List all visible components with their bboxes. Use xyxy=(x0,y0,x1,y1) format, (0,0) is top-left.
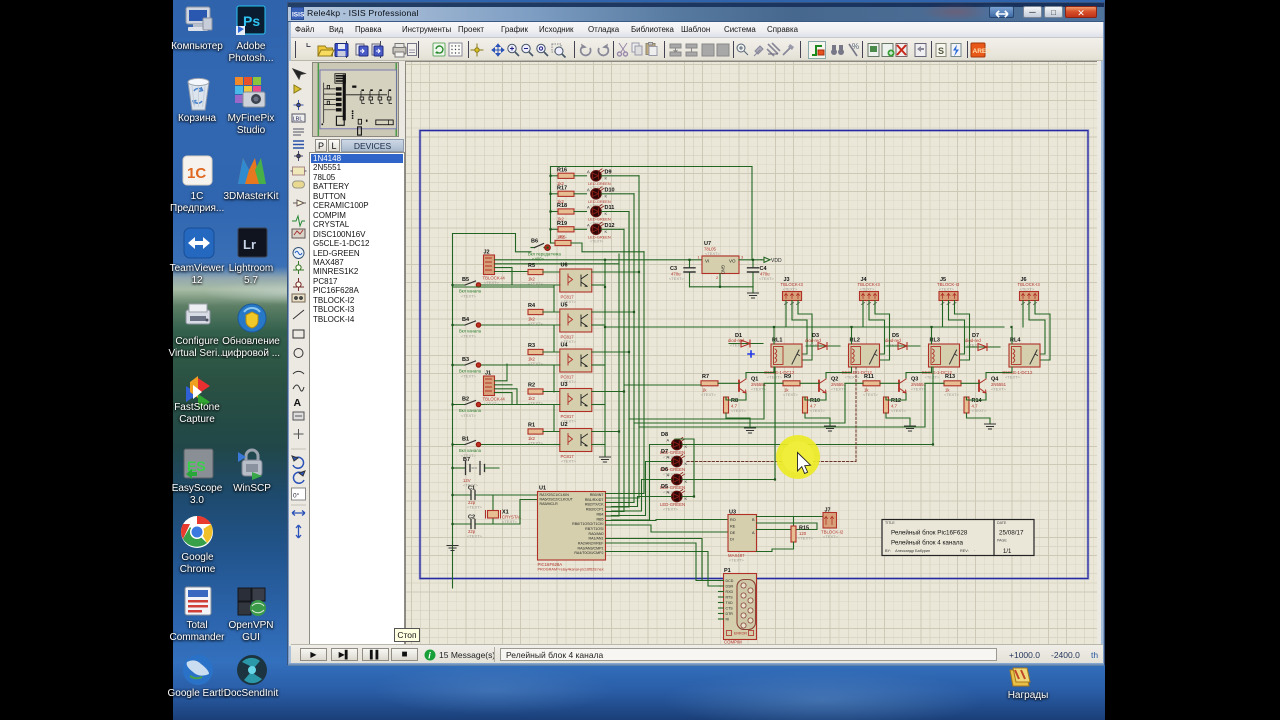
svg-text:RB6/T1OSO/T1CKI: RB6/T1OSO/T1CKI xyxy=(572,522,603,526)
LED D5 xyxy=(660,484,688,512)
save xyxy=(335,44,348,57)
svg-text:DSR: DSR xyxy=(726,585,734,589)
open xyxy=(318,46,334,56)
svg-text:U4: U4 xyxy=(561,343,569,349)
origin xyxy=(471,44,484,57)
svg-text:R9: R9 xyxy=(784,374,791,380)
svg-text:DI: DI xyxy=(730,538,734,542)
Награды icon xyxy=(1010,668,1030,686)
svg-text:R18: R18 xyxy=(557,203,567,209)
svg-text:PIC16F628A: PIC16F628A xyxy=(538,562,563,567)
switch B6 xyxy=(528,239,561,262)
connector J5 TBLOCK-I3 xyxy=(937,277,960,305)
import xyxy=(356,44,368,56)
sheet border xyxy=(420,131,1088,579)
cut xyxy=(618,43,628,56)
wire xyxy=(493,494,538,496)
wire xyxy=(612,497,672,507)
svg-text:PAGE: PAGE xyxy=(997,539,1007,543)
capacitor C3 xyxy=(669,260,695,287)
connector J2 TBLOCK-I4 xyxy=(483,250,506,286)
svg-text:<TEXT>: <TEXT> xyxy=(461,413,477,418)
1C icon xyxy=(183,156,212,185)
wire xyxy=(623,229,625,511)
block delete xyxy=(717,44,729,56)
svg-text:Ps: Ps xyxy=(243,13,260,29)
svg-text:RO: RO xyxy=(730,518,736,522)
microcontroller U1 PIC16F628A xyxy=(538,486,606,572)
svg-text:CTS: CTS xyxy=(726,607,734,611)
resistor R9 xyxy=(783,374,819,397)
svg-text:<TEXT>: <TEXT> xyxy=(461,374,477,379)
svg-text:RA3/AN3/CMP1: RA3/AN3/CMP1 xyxy=(578,546,604,550)
Компьютер icon xyxy=(186,7,212,31)
svg-text:RB0/INT: RB0/INT xyxy=(590,493,605,497)
svg-text:<TEXT>: <TEXT> xyxy=(461,294,477,299)
switch B5 xyxy=(453,277,555,299)
capacitor C4 xyxy=(748,260,775,287)
svg-text:VO: VO xyxy=(729,259,736,264)
connector J6 TBLOCK-I3 xyxy=(1018,277,1041,305)
wire xyxy=(551,166,753,168)
switch B1 xyxy=(453,437,555,459)
svg-text:Lr: Lr xyxy=(243,237,256,252)
svg-text:BY: Александр Бабурин: BY: Александр Бабурин xyxy=(885,549,930,553)
Chrome icon xyxy=(181,516,213,548)
wire xyxy=(495,268,513,285)
wire xyxy=(624,384,701,386)
sheet remove xyxy=(896,44,907,57)
wire xyxy=(453,234,532,252)
TeamViewer icon xyxy=(184,228,214,258)
svg-text:RE: RE xyxy=(730,525,736,529)
wire xyxy=(612,480,672,512)
wire xyxy=(606,506,630,508)
svg-text:<TEXT>: <TEXT> xyxy=(669,276,685,281)
svg-text:<TEXT>: <TEXT> xyxy=(939,287,955,292)
wire xyxy=(495,364,518,404)
svg-text:DCD: DCD xyxy=(726,579,734,583)
zoom out xyxy=(522,44,533,56)
wire xyxy=(592,404,605,406)
wire xyxy=(690,260,762,287)
svg-text:ERROR: ERROR xyxy=(734,632,747,636)
svg-text:Релейный блок Pic16F628: Релейный блок Pic16F628 xyxy=(891,529,968,537)
wire xyxy=(592,284,605,286)
connector J7 TBLOCK-I2 xyxy=(821,508,844,540)
crystal X1 xyxy=(486,495,523,524)
ARES xyxy=(971,43,991,57)
svg-text:<TEXT>: <TEXT> xyxy=(590,239,603,243)
transceiver U3 MAX487 xyxy=(728,510,757,563)
wire xyxy=(726,394,750,429)
wire xyxy=(633,194,635,503)
LED D11 xyxy=(574,205,614,226)
transistor Q4 2N5551 xyxy=(979,377,1007,394)
svg-text:1: 1 xyxy=(698,255,701,260)
pan xyxy=(492,44,504,56)
LED D10 xyxy=(574,187,615,208)
relay RL3 G5CLE-1-DC12 xyxy=(922,338,960,380)
zoom in xyxy=(508,44,519,56)
resistor R1 xyxy=(528,423,560,446)
block copy xyxy=(670,44,681,56)
node junction dots xyxy=(451,175,1012,525)
svg-text:A: A xyxy=(667,438,670,443)
wire xyxy=(601,193,634,195)
wire autorouter (active) xyxy=(809,42,826,59)
zoom full xyxy=(537,44,548,56)
resistor R13 xyxy=(944,374,979,397)
switch B3 xyxy=(453,357,555,379)
svg-text:A: A xyxy=(667,473,670,478)
svg-text:COMPIM: COMPIM xyxy=(724,640,742,645)
FastStone icon xyxy=(186,376,210,410)
EasyScope icon xyxy=(184,449,213,479)
resistor R14 xyxy=(964,397,987,413)
resistor R15 xyxy=(757,517,814,552)
voltage regulator U7 78L05 xyxy=(698,241,745,280)
hammer xyxy=(783,44,794,55)
svg-text:<TEXT>: <TEXT> xyxy=(528,321,544,326)
wire xyxy=(606,539,719,581)
svg-text:<TEXT>: <TEXT> xyxy=(863,392,879,397)
wire xyxy=(863,301,890,361)
svg-text:R7: R7 xyxy=(702,374,709,380)
wire xyxy=(554,285,560,312)
wire xyxy=(606,525,729,532)
svg-text:RB2/TX/CK: RB2/TX/CK xyxy=(585,503,604,507)
svg-text:<TEXT>: <TEXT> xyxy=(810,408,826,413)
zoom area xyxy=(552,44,566,58)
svg-text:25/08/17: 25/08/17 xyxy=(999,530,1024,537)
Total Commander icon xyxy=(185,587,211,615)
wire xyxy=(495,259,703,261)
wire xyxy=(606,497,640,499)
ground xyxy=(825,426,836,431)
svg-text:1С: 1С xyxy=(187,165,206,182)
svg-text:VI: VI xyxy=(705,259,709,264)
connector J1 TBLOCK-I4 xyxy=(483,371,506,407)
wire xyxy=(495,271,529,273)
mark xyxy=(408,44,417,56)
optocoupler U4 PC817 xyxy=(560,343,592,385)
transistor Q1 2N5551 xyxy=(739,377,767,394)
resistor R16 xyxy=(551,167,575,186)
wire xyxy=(554,325,560,352)
resistor R7 xyxy=(701,374,739,397)
svg-text:GND: GND xyxy=(721,265,726,274)
svg-text:<TEXT>: <TEXT> xyxy=(823,534,839,539)
wire xyxy=(606,502,635,504)
connector J4 TBLOCK-I3 xyxy=(858,277,881,305)
relay RL2 G5CLE-1-DC12 xyxy=(842,338,880,380)
svg-text:<TEXT>: <TEXT> xyxy=(467,505,483,510)
wire xyxy=(592,444,605,446)
svg-text:U5: U5 xyxy=(561,303,568,309)
svg-text:U2: U2 xyxy=(561,422,568,428)
desktop icons art xyxy=(173,0,1105,720)
resistor R11 xyxy=(863,374,899,397)
refresh xyxy=(433,43,445,56)
wire xyxy=(554,444,560,446)
svg-text:TITLE: TITLE xyxy=(885,521,895,525)
hatch xyxy=(767,43,780,56)
wire xyxy=(967,394,991,425)
wire xyxy=(629,383,783,419)
wire xyxy=(592,364,605,366)
wire (routing, dashed) xyxy=(687,367,856,462)
svg-text:RB7/T1OSI: RB7/T1OSI xyxy=(585,527,603,531)
transistor Q2 2N5551 xyxy=(819,377,847,394)
wire xyxy=(612,462,672,516)
svg-text:A: A xyxy=(667,455,670,460)
svg-text:ARES: ARES xyxy=(973,48,992,55)
diode D1 xyxy=(728,333,763,348)
resistor R3 xyxy=(528,343,560,366)
svg-text:2: 2 xyxy=(716,275,719,280)
wire xyxy=(606,520,729,521)
LED D6 xyxy=(660,467,688,495)
wire xyxy=(628,212,630,508)
svg-text:B3: B3 xyxy=(462,357,469,363)
svg-text:B4: B4 xyxy=(462,317,470,323)
svg-text:RB5: RB5 xyxy=(597,517,604,521)
svg-text:<TEXT>: <TEXT> xyxy=(467,534,483,539)
wire xyxy=(601,175,639,177)
svg-text:<TEXT>: <TEXT> xyxy=(461,334,477,339)
resistor R19 xyxy=(551,221,575,240)
capacitor C2 xyxy=(453,500,538,539)
diode D5 xyxy=(885,333,920,350)
wire xyxy=(592,351,629,353)
svg-text:<TEXT>: <TEXT> xyxy=(705,251,721,256)
svg-text:R2: R2 xyxy=(528,383,535,389)
svg-text:<TEXT>: <TEXT> xyxy=(845,375,861,380)
wire xyxy=(592,431,619,433)
wire xyxy=(746,327,774,378)
wire xyxy=(601,211,629,213)
connector P1 COMPIM xyxy=(719,568,757,645)
wire xyxy=(606,552,719,587)
resistor R12 xyxy=(884,397,907,413)
svg-text:<TEXT>: <TEXT> xyxy=(991,387,1007,392)
svg-text:RB4: RB4 xyxy=(597,512,604,516)
wire xyxy=(601,228,624,230)
wire xyxy=(786,301,812,361)
svg-text:REV: ·: REV: · xyxy=(960,549,975,553)
LED D12 xyxy=(574,222,615,243)
wire xyxy=(605,326,1004,328)
svg-text:<TEXT>: <TEXT> xyxy=(972,408,988,413)
svg-text:RA7/OSC1/CLKIN: RA7/OSC1/CLKIN xyxy=(540,493,570,497)
svg-text:RA4/T0CKI/CMP2: RA4/T0CKI/CMP2 xyxy=(574,551,603,555)
svg-text:PROGRAM=relay4kanal-pic16f628.: PROGRAM=relay4kanal-pic16f628.hex xyxy=(538,568,604,572)
separators xyxy=(296,41,968,58)
resistor R18 xyxy=(551,203,575,222)
wire xyxy=(606,493,645,495)
desktop icon captions xyxy=(168,41,226,53)
svg-text:R17: R17 xyxy=(557,185,567,191)
wire gnd chain xyxy=(453,260,606,454)
pin xyxy=(754,46,763,56)
relay RL1 G5CLE-1-DC12 xyxy=(764,338,802,380)
svg-text:R11: R11 xyxy=(864,374,874,380)
svg-text:RTS: RTS xyxy=(726,596,734,600)
wire xyxy=(751,167,753,260)
wire xyxy=(1023,301,1050,361)
svg-text:<TEXT>: <TEXT> xyxy=(783,287,799,292)
Lightroom icon xyxy=(238,228,267,257)
svg-text:<TEXT>: <TEXT> xyxy=(701,392,717,397)
svg-text:<TEXT>: <TEXT> xyxy=(860,287,876,292)
wire xyxy=(495,263,620,265)
wire xyxy=(592,324,605,326)
wire xyxy=(826,327,852,378)
binoculars xyxy=(831,45,844,55)
svg-text:B1: B1 xyxy=(462,437,469,443)
wire xyxy=(986,327,1012,378)
wire xyxy=(906,327,932,378)
svg-text:<TEXT>: <TEXT> xyxy=(663,507,679,512)
ground xyxy=(600,454,611,462)
wire xyxy=(550,167,552,244)
svg-text:RB1/RX/DT: RB1/RX/DT xyxy=(585,498,605,502)
wire xyxy=(606,515,620,517)
svg-text:RB3/CCP1: RB3/CCP1 xyxy=(586,508,604,512)
resistor R6 xyxy=(551,235,645,252)
DocSendInit icon xyxy=(237,655,267,685)
wire xyxy=(592,391,624,393)
script S xyxy=(936,44,946,57)
transistor Q3 2N5551 xyxy=(899,377,927,394)
resistor R5 xyxy=(528,263,560,286)
svg-text:VDD: VDD xyxy=(771,258,782,264)
svg-text:R4: R4 xyxy=(528,303,536,309)
title block xyxy=(882,520,1034,556)
cursor highlight xyxy=(776,435,820,479)
svg-text:<TEXT>: <TEXT> xyxy=(528,401,544,406)
svg-text:<TEXT>: <TEXT> xyxy=(484,401,500,406)
optocoupler U3 PC817 xyxy=(560,382,592,424)
svg-text:<TEXT>: <TEXT> xyxy=(1005,375,1021,380)
svg-text:<TEXT>: <TEXT> xyxy=(1020,287,1036,292)
svg-text:-R6-: -R6- xyxy=(558,235,567,240)
svg-text:R1: R1 xyxy=(528,423,535,429)
svg-text:RA5/MCLR: RA5/MCLR xyxy=(540,502,559,506)
WinSCP icon xyxy=(238,450,262,480)
svg-text:DE: DE xyxy=(730,531,736,535)
diode D3 xyxy=(805,333,840,350)
MyFinePix icon xyxy=(235,77,265,107)
resistor R17 xyxy=(551,185,575,204)
wire xyxy=(554,405,560,432)
optocoupler U5 PC817 xyxy=(560,303,592,345)
node junction xyxy=(748,351,754,357)
svg-text:R13: R13 xyxy=(945,374,955,380)
wire xyxy=(943,301,970,361)
export xyxy=(372,44,383,56)
svg-text:<TEXT>: <TEXT> xyxy=(925,375,941,380)
resistor R8 xyxy=(724,397,747,413)
svg-text:<TEXT>: <TEXT> xyxy=(798,536,814,541)
svg-text:RA6/OSC2/CLKOUT: RA6/OSC2/CLKOUT xyxy=(540,498,574,502)
svg-text:<TEXT>: <TEXT> xyxy=(911,387,927,392)
Обновление цифровой icon xyxy=(238,304,266,332)
svg-text:A: A xyxy=(587,205,590,210)
wire xyxy=(606,511,625,513)
wire xyxy=(757,517,824,530)
svg-text:R16: R16 xyxy=(557,167,567,173)
Configure virtual serial icon xyxy=(186,304,210,324)
svg-text:A: A xyxy=(587,222,590,227)
wire xyxy=(643,252,645,494)
svg-text:U3: U3 xyxy=(561,382,568,388)
svg-text:<TEXT>: <TEXT> xyxy=(759,276,775,281)
Google Earth icon xyxy=(183,655,213,685)
svg-text:3: 3 xyxy=(741,255,744,260)
sheet add xyxy=(882,44,895,57)
svg-text:<TEXT>: <TEXT> xyxy=(528,361,544,366)
battery B7 xyxy=(453,457,500,488)
wire xyxy=(554,365,560,392)
Adobe Photoshop icon xyxy=(236,6,265,35)
svg-text:<TEXT>: <TEXT> xyxy=(528,281,544,286)
redo xyxy=(598,44,608,56)
pick xyxy=(737,44,748,55)
svg-text:ISIS: ISIS xyxy=(292,11,304,18)
sheet new xyxy=(868,44,879,57)
wire xyxy=(639,383,944,427)
connector J3 TBLOCK-I3 xyxy=(781,277,804,305)
capacitor C1 xyxy=(453,486,494,510)
LED D7 xyxy=(660,449,688,477)
grid toggle xyxy=(449,43,462,56)
wire xyxy=(675,439,694,497)
ground xyxy=(748,287,759,298)
copy xyxy=(632,43,642,55)
svg-text:0°: 0° xyxy=(293,492,300,500)
3DMasterKit icon xyxy=(238,158,266,184)
svg-text:DATE: DATE xyxy=(997,521,1007,525)
wire xyxy=(618,254,620,516)
wire left rail xyxy=(452,234,454,589)
svg-text:R5: R5 xyxy=(528,263,535,269)
switch B4 xyxy=(453,317,555,339)
goto sheet xyxy=(915,44,926,57)
resistor R10 xyxy=(803,397,826,413)
OpenVPN icon xyxy=(238,588,266,616)
svg-text:<TEXT>: <TEXT> xyxy=(944,392,960,397)
svg-text:B6: B6 xyxy=(531,239,538,245)
ground xyxy=(745,428,756,433)
svg-text:<TEXT>: <TEXT> xyxy=(831,387,847,392)
paste xyxy=(646,43,657,56)
svg-text:RI: RI xyxy=(726,618,730,622)
svg-text:RA0/AN0: RA0/AN0 xyxy=(589,532,604,536)
wire xyxy=(682,367,775,480)
svg-text:<TEXT>: <TEXT> xyxy=(528,441,544,446)
svg-text:A: A xyxy=(667,490,670,495)
diode D7 xyxy=(965,333,1000,351)
svg-text:TXD: TXD xyxy=(726,601,734,605)
svg-text:S: S xyxy=(938,46,944,56)
optocoupler U6 PC817 xyxy=(560,263,592,305)
bom lightning xyxy=(951,44,961,57)
ground xyxy=(905,426,916,431)
svg-text:B5: B5 xyxy=(462,277,469,283)
svg-text:A: A xyxy=(294,397,302,409)
